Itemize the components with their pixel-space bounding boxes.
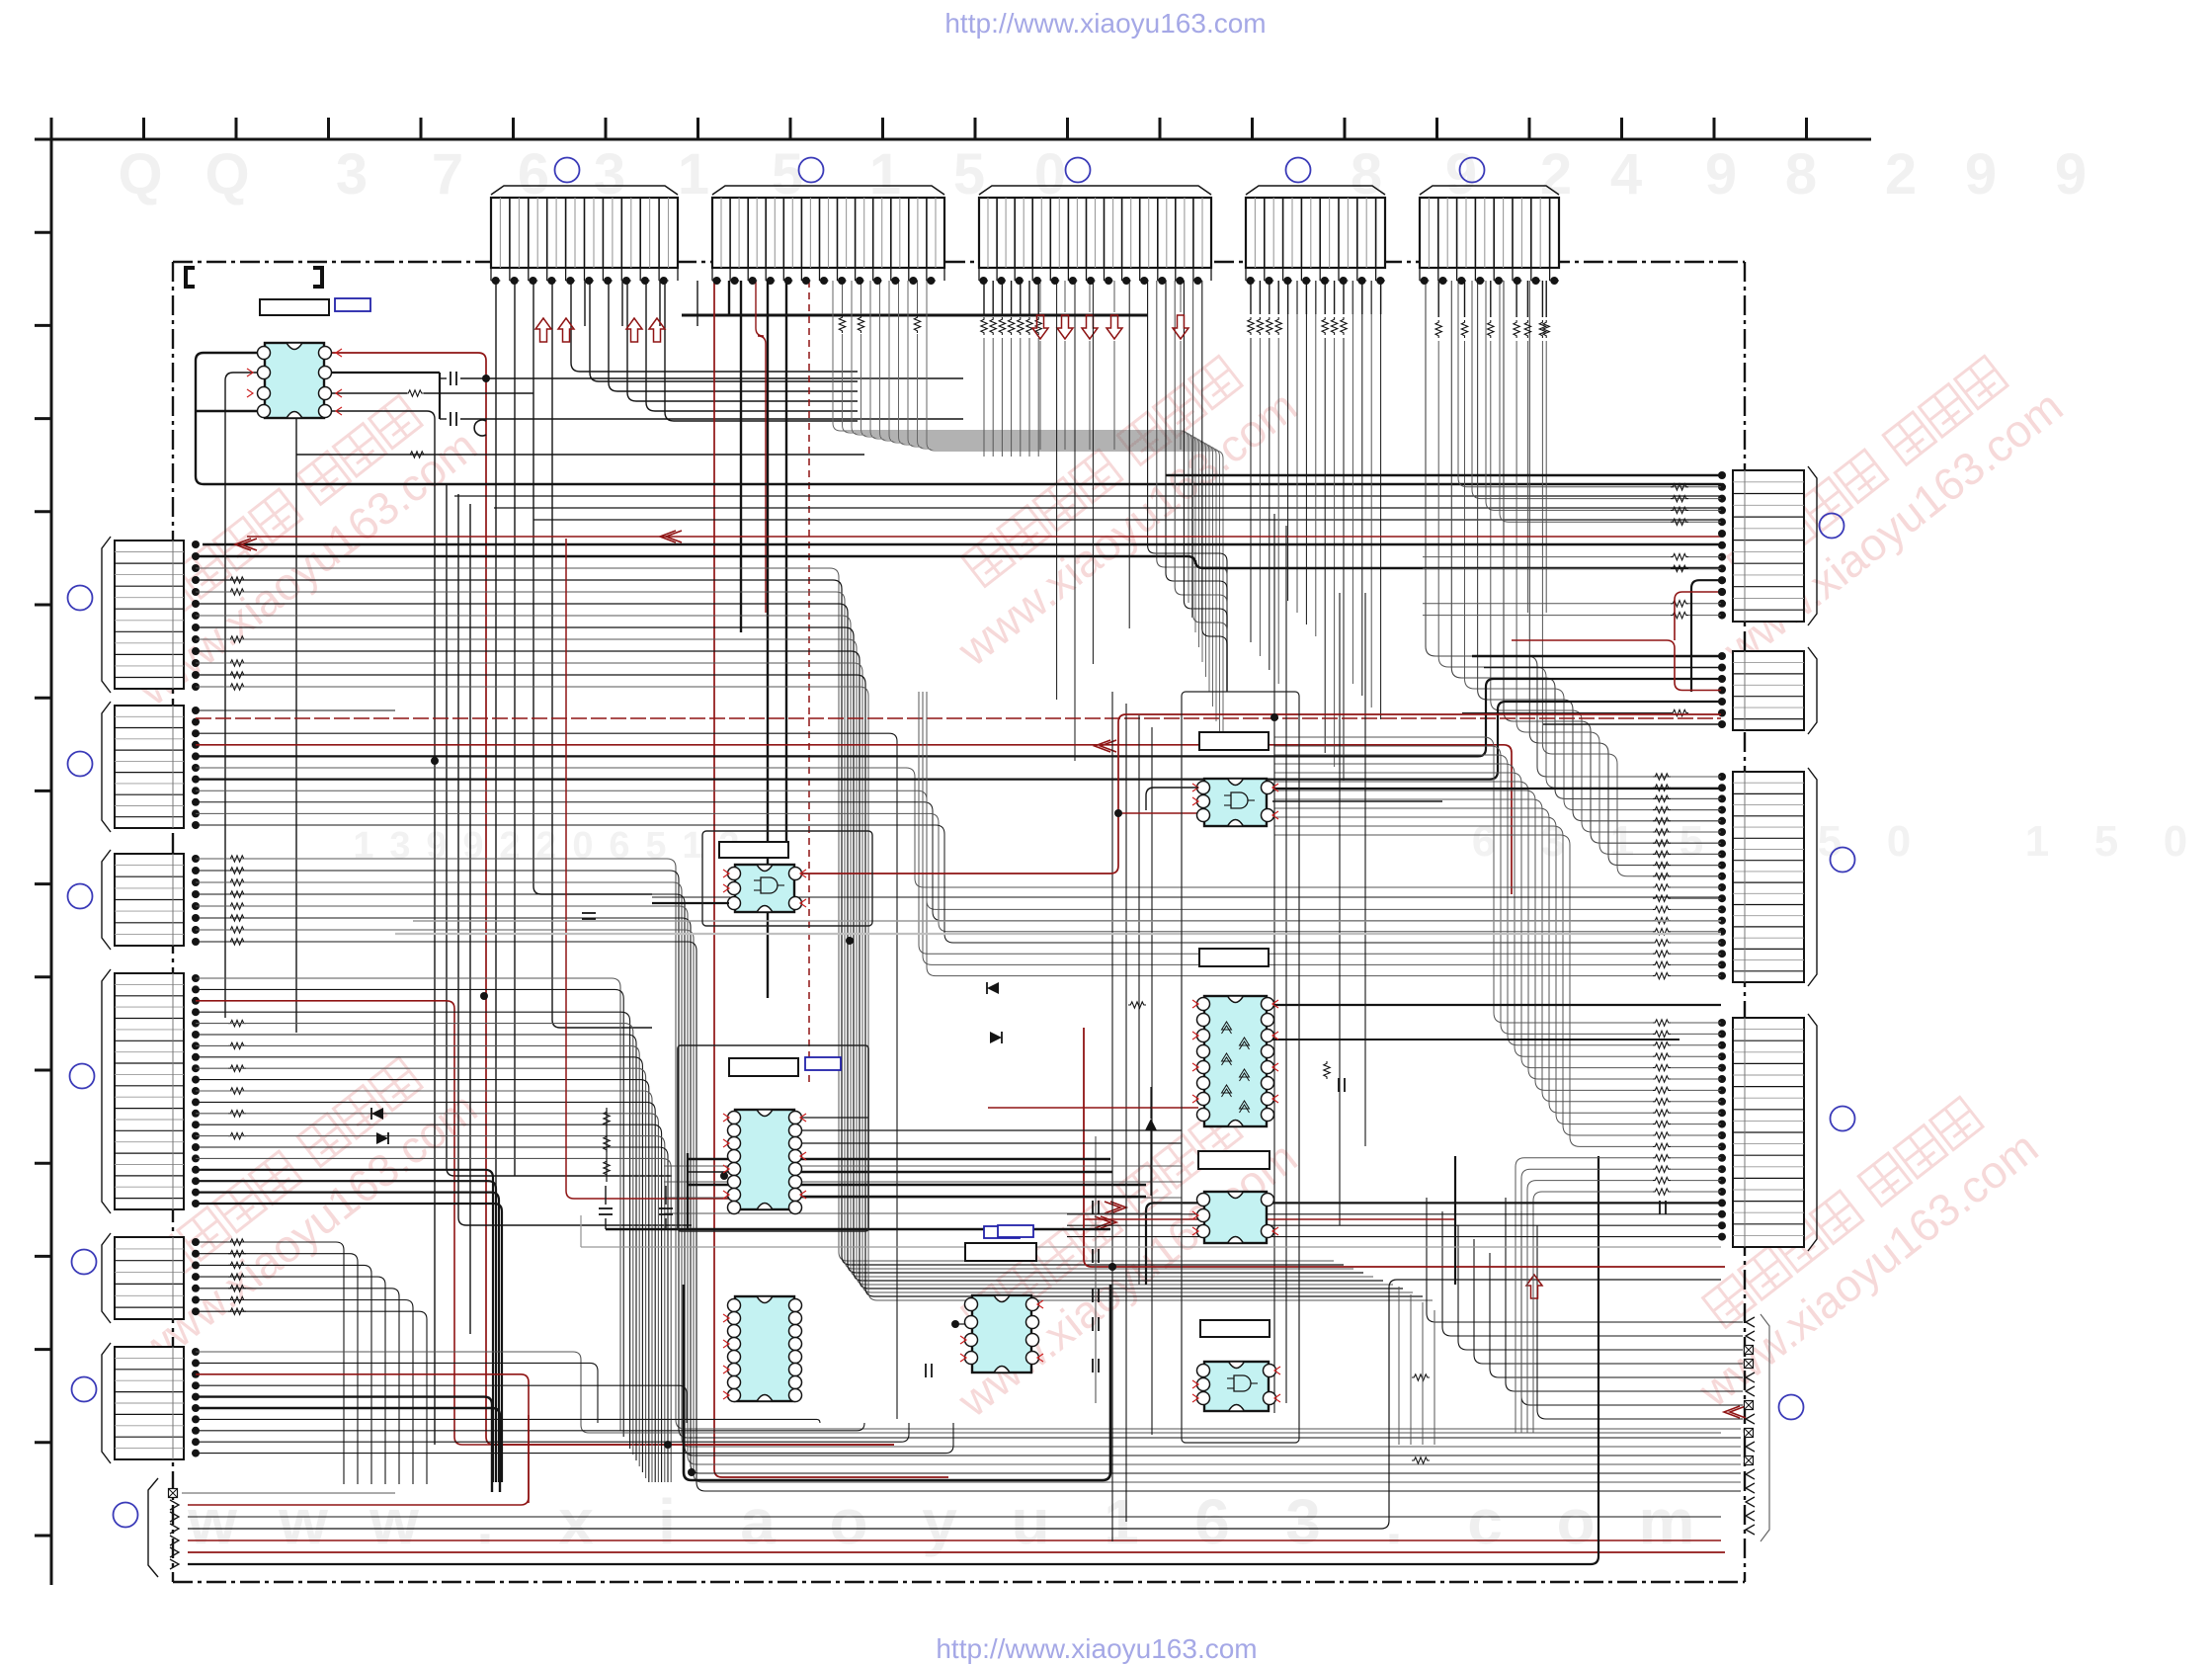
CN-T5 pin link	[1494, 280, 1503, 282]
resistor	[1653, 1110, 1671, 1116]
ic U6 pin	[1026, 1352, 1039, 1365]
CN-T5 pin separator	[1474, 198, 1476, 268]
L1 junction	[192, 552, 200, 560]
CN-T2 pin separator	[899, 198, 901, 268]
svg-text:2: 2	[535, 825, 556, 867]
bracket label	[313, 268, 322, 287]
CN-T5 pin link	[1550, 280, 1559, 282]
CN-T1 pin stub	[546, 268, 548, 281]
signal arrow	[660, 531, 682, 542]
ic U1 pin	[258, 405, 271, 418]
CN-T3 pin junction	[1140, 277, 1148, 285]
wire R1 short feed	[1423, 603, 1671, 605]
ic U1 pin	[258, 387, 271, 400]
CN-T3 pin stub	[1014, 268, 1016, 281]
ruler tick	[881, 118, 884, 139]
wire mesh mid	[664, 1197, 1182, 1199]
L4 junction	[192, 1110, 200, 1118]
resistor	[1653, 1177, 1671, 1183]
ic U8 pin	[1262, 1061, 1274, 1074]
CN-T3 pin link	[1193, 280, 1202, 282]
wire R3 link	[1671, 920, 1721, 922]
CN-L2 row separator	[115, 715, 184, 717]
U8 buffer symbol	[1240, 1101, 1250, 1113]
L5 junction	[192, 1238, 200, 1246]
CN-T4 pin link	[1376, 280, 1385, 282]
wire mesh mid	[664, 1165, 1182, 1167]
CN-T1 pin separator	[668, 198, 670, 268]
L4 junction	[192, 1031, 200, 1039]
R4 junction	[1718, 1188, 1726, 1196]
wire mesh mid	[664, 1181, 1182, 1183]
ic U4 body	[735, 1110, 794, 1209]
wire L6 route	[196, 1419, 820, 1423]
red wire L6	[196, 1374, 529, 1503]
CN-T2 pin link	[748, 280, 757, 282]
CN-T1 pin junction	[566, 277, 574, 285]
wire T3 drop	[1113, 341, 1115, 450]
connector CN-R3 body	[1733, 772, 1804, 982]
thick wire U1 left4	[196, 410, 259, 412]
CN-T3 pin link	[1068, 280, 1077, 282]
cap lead	[605, 1186, 607, 1205]
CN-T5 pin junction	[1495, 277, 1503, 285]
resistor	[1018, 317, 1024, 335]
capacitor	[582, 918, 596, 920]
wire T3 stub	[1001, 281, 1003, 314]
CN-T3 pin separator	[1049, 198, 1051, 268]
CN-L6 row separator	[115, 1425, 184, 1427]
resistor	[1341, 317, 1347, 335]
L6 junction	[192, 1404, 200, 1412]
CN-T2 pin junction	[784, 277, 792, 285]
CN-L5 row separator	[115, 1306, 184, 1308]
CN-T3 pin stub	[1175, 268, 1177, 281]
CN-T3 pin separator	[1130, 198, 1132, 268]
resistor	[1653, 840, 1671, 846]
board label box	[984, 1226, 1020, 1238]
L5 junction	[192, 1273, 200, 1281]
CN-R3 row separator	[1733, 926, 1804, 928]
reference balloon	[1831, 848, 1855, 873]
connector CN-L4 body	[115, 973, 184, 1209]
L2 junction	[192, 729, 200, 737]
wire U1 left2	[225, 373, 259, 1018]
wire T1 drop deep	[495, 281, 497, 1445]
wire mesh bus	[454, 495, 1721, 497]
CN-L2 row separator	[115, 749, 184, 751]
CN-T5 pin separator	[1512, 198, 1514, 268]
CN-T1 pin link	[640, 280, 650, 282]
CN-T4 pin separator	[1272, 198, 1274, 268]
pin contact	[170, 1547, 179, 1557]
CN-T1 pin link	[491, 280, 500, 282]
ic U3 pin	[1262, 809, 1274, 822]
part label box	[1200, 1320, 1270, 1337]
wire R5 route	[1506, 1198, 1743, 1391]
wire T5 rainbow to R3	[1491, 341, 1721, 832]
junction	[480, 992, 488, 1000]
resistor	[1653, 906, 1671, 912]
wire R4 rainbow	[1274, 808, 1653, 1113]
wire T1 stub	[621, 281, 623, 326]
svg-text:o: o	[829, 1486, 867, 1557]
CN-T1 pin separator	[536, 198, 538, 268]
thick U4 out3	[800, 1184, 1146, 1186]
CN-R3 row separator	[1733, 860, 1804, 862]
wire T3 elbow right	[1148, 281, 1227, 692]
wire U1 r4 trunk	[330, 411, 435, 1445]
U4 pin wire	[688, 1171, 729, 1173]
wire T4 stub	[1287, 281, 1289, 314]
U3 gate lead	[1248, 799, 1255, 801]
CN-R4 row separator	[1733, 1074, 1804, 1076]
wire T4 below res	[1259, 338, 1261, 656]
CN-T1 pin stub	[509, 268, 511, 281]
wire T3 elbow right	[1193, 281, 1227, 692]
CN-L6 row separator	[115, 1413, 184, 1415]
L4 junction	[192, 1189, 200, 1197]
pin arrow	[800, 899, 806, 907]
pin arrow	[723, 870, 729, 877]
ic U8 pin	[1197, 1109, 1210, 1122]
CN-T2 pin separator	[846, 198, 848, 268]
svg-text:o: o	[1556, 1486, 1595, 1557]
CN-T1 pin separator	[649, 198, 651, 268]
ic U10 notch	[1229, 1362, 1245, 1369]
ic U4 pin	[789, 1112, 802, 1124]
CN-T3 pin link	[1140, 280, 1149, 282]
wire U3 pin	[1146, 788, 1198, 810]
CN-T5 pin junction	[1514, 277, 1521, 285]
CN-T4 pin separator	[1282, 198, 1284, 268]
svg-text:6: 6	[609, 825, 629, 867]
ic U8 pin	[1262, 998, 1274, 1011]
ruler tick	[512, 118, 515, 139]
resistor	[1257, 317, 1263, 335]
U2 gate symbol	[761, 877, 778, 893]
pin arrow	[1272, 1063, 1278, 1071]
CN-L1 row separator	[115, 574, 184, 576]
wire T3 stub	[1020, 281, 1022, 314]
CN-R4 row separator	[1733, 1223, 1804, 1225]
CN-T1 pin link	[547, 280, 557, 282]
CN-T5 pin separator	[1520, 198, 1522, 268]
wire L4 route	[196, 1045, 639, 1466]
red wire L2	[196, 745, 1512, 894]
wire T3 below res	[1020, 338, 1022, 457]
CN-L1 row separator	[115, 551, 184, 553]
CN-T3 pin link	[1105, 280, 1113, 282]
CN-T1 pin link	[659, 280, 669, 282]
CN-L6 row separator	[115, 1369, 184, 1371]
wire T1 elbow	[590, 281, 858, 381]
ruler tick	[696, 118, 699, 139]
R4 junction	[1718, 1041, 1726, 1049]
wire L3 route to band	[196, 859, 1741, 1429]
L5 junction	[192, 1296, 200, 1304]
svg-text:c: c	[1467, 1486, 1503, 1557]
svg-text:m: m	[1639, 1486, 1695, 1557]
ic U2 pin	[728, 882, 741, 895]
thick U4 out	[800, 1158, 1110, 1160]
R3 junction	[1718, 917, 1726, 925]
CN-T5 pin stub	[1530, 268, 1532, 281]
ic U8 notch	[1228, 1121, 1244, 1127]
svg-text:0: 0	[1887, 817, 1911, 866]
ic U3 pin	[1197, 782, 1210, 794]
ic U1 notch	[287, 343, 302, 350]
signal arrow	[1105, 1202, 1126, 1213]
capacitor	[455, 372, 457, 385]
connector CN-L4 bracket	[102, 969, 111, 1213]
L2 junction	[192, 809, 200, 817]
resistor	[228, 660, 246, 666]
CN-R4 row separator	[1733, 1189, 1804, 1191]
ic U8 body	[1204, 996, 1267, 1126]
pin contact	[1746, 1386, 1755, 1396]
ruler tick	[420, 118, 423, 139]
wire T4 stub	[1352, 281, 1353, 314]
R1 junction	[1718, 588, 1726, 596]
capacitor	[1092, 1359, 1094, 1373]
CN-T3 pin stub	[1121, 268, 1123, 281]
L4 junction	[192, 1008, 200, 1016]
resistor	[1128, 1002, 1146, 1008]
R4 junction	[1718, 1131, 1726, 1139]
resistor	[228, 1251, 246, 1257]
ic U4 pin	[789, 1163, 802, 1176]
capacitor	[599, 1213, 613, 1215]
resistor	[1653, 1087, 1671, 1093]
CN-T3 pin link	[1087, 280, 1096, 282]
ruler tick	[35, 324, 51, 327]
ic U5 pin	[789, 1338, 802, 1351]
resistor	[1435, 320, 1441, 338]
CN-T3 pin junction	[1122, 277, 1130, 285]
CN-T2 pin junction	[873, 277, 881, 285]
thick wire L1	[196, 556, 1721, 568]
CN-T3 pin link	[1015, 280, 1024, 282]
wire mesh bus	[494, 507, 1721, 509]
CN-R1 row separator	[1733, 609, 1804, 611]
CN-T1 pin link	[621, 280, 631, 282]
U2 gate lead	[754, 889, 761, 891]
ic U4 pin	[789, 1124, 802, 1137]
wire T3 drop2	[1128, 281, 1130, 628]
U3 gate lead	[1224, 794, 1231, 796]
svg-text:2: 2	[1885, 142, 1917, 207]
pin arrow	[336, 389, 342, 397]
resistor	[839, 315, 845, 333]
ic U5 pin	[789, 1299, 802, 1312]
pin arrow	[1192, 1211, 1198, 1219]
wire L1 route	[196, 616, 1373, 1277]
pin arrow	[247, 369, 253, 376]
pin arrow	[960, 1354, 966, 1362]
CN-T1 pin stub	[620, 268, 622, 281]
CN-T5 pin separator	[1503, 198, 1505, 268]
ruler tick	[35, 604, 51, 607]
resistor	[228, 891, 246, 897]
wire T2 fan	[927, 281, 1223, 751]
board label box	[805, 1057, 841, 1070]
connector CN-L2 body	[115, 706, 184, 828]
ic U8 pin	[1262, 1109, 1274, 1122]
CN-L4 row separator	[115, 1108, 184, 1110]
L4 junction	[192, 1098, 200, 1106]
diode wire	[1150, 1087, 1152, 1119]
CN-L4 row separator	[115, 1062, 184, 1064]
red wire U8 in	[988, 1107, 1198, 1109]
ic U4 pin	[789, 1176, 802, 1189]
wire L4 route	[196, 1012, 630, 1449]
resistor	[228, 856, 246, 862]
wire T2 stub	[842, 281, 844, 314]
CN-L4 row separator	[115, 1141, 184, 1143]
wire T1 drop deep	[514, 281, 516, 1176]
L3 junction	[192, 938, 200, 946]
ruler tick	[35, 138, 51, 141]
wire L2 to R3 row	[196, 790, 1653, 909]
CN-L2 row separator	[115, 783, 184, 785]
bus arrow	[558, 318, 574, 342]
CN-T1 pin junction	[511, 277, 519, 285]
L6 junction	[192, 1450, 200, 1457]
CN-L4 row separator	[115, 1164, 184, 1166]
ic U5 pin	[728, 1389, 741, 1402]
CN-L1 row separator	[115, 653, 184, 655]
CN-T5 pin separator	[1539, 198, 1541, 268]
CN-T2 pin separator	[774, 198, 776, 268]
thick wire R1	[1166, 474, 1721, 476]
CN-T2 pin separator	[926, 198, 928, 268]
pin arrow	[723, 1366, 729, 1373]
wire L4 route	[196, 1080, 649, 1482]
CN-T2 pin link	[801, 280, 810, 282]
svg-text:a: a	[740, 1486, 776, 1557]
wire mesh bus	[533, 519, 1721, 521]
ic U4 notch	[757, 1110, 773, 1117]
CN-R2 inner line	[1744, 651, 1746, 730]
diode bar	[370, 1108, 372, 1120]
L1 junction	[192, 612, 200, 620]
resistor	[1653, 929, 1671, 935]
thick ground bus	[682, 314, 1148, 317]
wire T1 drop	[533, 281, 652, 894]
U2 gate lead	[754, 879, 761, 881]
CN-T2 pin stub	[782, 268, 784, 281]
wire res out	[424, 392, 533, 394]
R4 junction	[1718, 1052, 1726, 1060]
pin arrow	[723, 1314, 729, 1322]
shield frame right column	[1182, 692, 1299, 1443]
CN-T3 pin separator	[1058, 198, 1060, 268]
red wire U3 in branch	[1118, 812, 1198, 814]
wire R2 in	[1496, 678, 1721, 680]
CN-T3 pin stub	[978, 268, 980, 281]
CN-T2 pin link	[712, 280, 721, 282]
CN-L6 row separator	[115, 1391, 184, 1393]
CN-T1 pin stub	[602, 268, 604, 281]
wire trunk	[1285, 526, 1287, 1403]
diode bar	[1001, 1032, 1003, 1043]
CN-R2 row separator	[1733, 718, 1804, 720]
svg-text:3: 3	[1285, 1486, 1321, 1557]
CN-T5 pin link	[1438, 280, 1447, 282]
CN-L6 row separator	[115, 1448, 184, 1450]
R1 junction	[1718, 483, 1726, 491]
resistor	[1653, 851, 1671, 857]
wire U1 left3	[259, 393, 296, 1033]
svg-text:8: 8	[1785, 142, 1817, 207]
wire T1 stub	[584, 281, 586, 326]
ruler tick	[35, 417, 51, 420]
svg-text:http://www.xiaoyu163.com: http://www.xiaoyu163.com	[944, 8, 1266, 39]
connector CN-L3 body	[115, 854, 184, 946]
resistor	[1488, 320, 1494, 338]
capacitor	[1098, 1359, 1100, 1373]
bus arrow	[1106, 315, 1122, 339]
CN-T2 pin link	[838, 280, 847, 282]
R1 junction	[1718, 564, 1726, 572]
L4 junction	[192, 1064, 200, 1072]
watermark	[95, 377, 486, 715]
wire T3 elbow right	[1166, 281, 1227, 692]
CN-R4 row separator	[1733, 1201, 1804, 1203]
svg-text:x: x	[558, 1486, 594, 1557]
wire R4 bottom riser	[1533, 1192, 1653, 1433]
resistor	[228, 1274, 246, 1280]
CN-T4 pin separator	[1365, 198, 1367, 268]
CN-T5 pin separator	[1437, 198, 1439, 268]
CN-T2 pin junction	[909, 277, 917, 285]
R1 junction	[1718, 506, 1726, 514]
cap lead	[605, 1218, 607, 1229]
resistor	[1671, 507, 1688, 513]
L2 junction	[192, 718, 200, 726]
capacitor	[1665, 1201, 1667, 1214]
ic U6 pin	[965, 1298, 978, 1311]
pin square	[1745, 1429, 1754, 1438]
ic U4 pin	[728, 1202, 741, 1214]
ic U4 pin	[728, 1124, 741, 1137]
U10 gate lead	[1227, 1377, 1234, 1379]
pin contact	[1746, 1497, 1755, 1507]
wire L7 r0	[182, 1492, 395, 1494]
R2 junction	[1718, 652, 1726, 660]
ic U8 pin	[1262, 1045, 1274, 1058]
wire trunk	[447, 484, 672, 1176]
U8 buffer symbol	[1222, 1022, 1232, 1034]
thick wire L6	[196, 1397, 492, 1492]
R4 junction	[1718, 1233, 1726, 1241]
pin arrow	[1272, 811, 1278, 819]
CN-T1 pin junction	[547, 277, 555, 285]
L4 junction	[192, 974, 200, 982]
R3 junction	[1718, 828, 1726, 836]
CN-T5 pin separator	[1484, 198, 1486, 268]
wire L3 route to band	[196, 906, 1741, 1464]
wire T3 stub	[1089, 281, 1091, 312]
R3 junction	[1718, 960, 1726, 968]
wire trunk	[1111, 692, 1113, 1541]
svg-text:2: 2	[499, 825, 520, 867]
resistor	[228, 927, 246, 933]
ic U3 pin	[1197, 795, 1210, 808]
cap lead	[440, 418, 447, 420]
resistor	[1653, 1076, 1671, 1082]
